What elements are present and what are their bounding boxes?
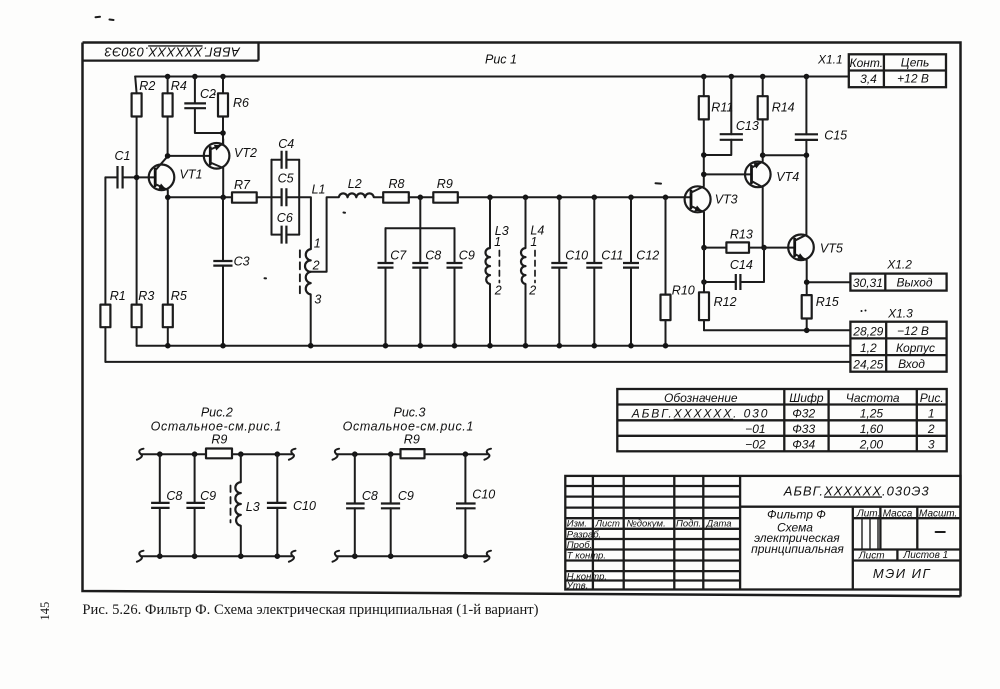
svg-text:R4: R4 bbox=[171, 79, 187, 93]
capacitor block brackets (C4/C5/C6) bbox=[272, 160, 300, 235]
svg-text:Ф33: Ф33 bbox=[792, 422, 815, 436]
svg-text:АБВГ.ХХХХХХ. 030: АБВГ.ХХХХХХ. 030 bbox=[631, 407, 770, 421]
resistor R12 bbox=[699, 248, 737, 331]
svg-text:C11: C11 bbox=[601, 249, 623, 263]
svg-text:X1.2: X1.2 bbox=[886, 258, 912, 272]
wire Вход input line bbox=[105, 361, 850, 363]
svg-text:R1: R1 bbox=[110, 289, 126, 303]
fig2 bottom rail bbox=[141, 553, 293, 559]
fig2 inductor L3 bbox=[231, 454, 260, 556]
svg-text:№докум.: №докум. bbox=[627, 518, 666, 529]
svg-text:Вход: Вход bbox=[898, 357, 925, 371]
svg-text:C8: C8 bbox=[362, 489, 378, 503]
svg-text:Рис.: Рис. bbox=[920, 391, 944, 405]
junction dots on main line bbox=[418, 195, 669, 201]
wire output (Выход) bbox=[804, 279, 851, 285]
svg-text:R6: R6 bbox=[233, 96, 249, 110]
svg-text:C15: C15 bbox=[824, 129, 847, 143]
svg-text:Конт.: Конт. bbox=[850, 56, 884, 70]
connector X1.2 table bbox=[850, 274, 946, 291]
svg-text:L3: L3 bbox=[246, 500, 260, 514]
caption Рис. 5.26 bbox=[82, 602, 538, 618]
resistor R15 bbox=[802, 282, 839, 330]
svg-text:VT2: VT2 bbox=[234, 146, 257, 160]
svg-text:Утв.: Утв. bbox=[566, 580, 589, 591]
capacitor C1 bbox=[105, 149, 136, 188]
svg-text:C2: C2 bbox=[200, 87, 216, 101]
svg-text:Изм.: Изм. bbox=[567, 519, 587, 530]
svg-text:28,29: 28,29 bbox=[852, 324, 883, 338]
capacitor C3 bbox=[213, 197, 249, 345]
svg-text:МЭИ ИГ: МЭИ ИГ bbox=[873, 566, 931, 581]
inductor L2 bbox=[339, 177, 383, 197]
connector X1.1 label bbox=[817, 53, 843, 67]
svg-text:C6: C6 bbox=[277, 211, 293, 225]
svg-text:1: 1 bbox=[314, 237, 321, 251]
svg-text:C7: C7 bbox=[390, 249, 407, 263]
capacitor C10 bbox=[551, 197, 588, 345]
junction dots on ground bus bbox=[165, 343, 668, 349]
svg-text:Обозначение: Обозначение bbox=[664, 391, 738, 405]
fig2 capacitor C10 bbox=[267, 454, 316, 556]
svg-text:Лист: Лист bbox=[595, 519, 621, 530]
svg-text:Рис 1: Рис 1 bbox=[485, 53, 517, 67]
title block texts bbox=[566, 483, 958, 591]
resistor R6 bbox=[218, 77, 249, 146]
svg-text:R9: R9 bbox=[404, 433, 420, 447]
variants table (Обозначение/Шифр/Частота/Рис.) bbox=[617, 389, 946, 452]
fig3 resistor R9 bbox=[401, 433, 425, 459]
svg-text:L2: L2 bbox=[348, 177, 362, 191]
capacitor C15 bbox=[763, 77, 847, 235]
svg-text:АБВГ.ХХХХХХ.030Э3: АБВГ.ХХХХХХ.030Э3 bbox=[783, 483, 930, 498]
svg-text:R14: R14 bbox=[772, 101, 795, 115]
svg-text:C13: C13 bbox=[736, 119, 759, 133]
wire -12V line bbox=[704, 328, 850, 334]
wire block to L1 top bbox=[299, 197, 311, 249]
svg-text:R9: R9 bbox=[437, 177, 453, 191]
svg-text:Корпус: Корпус bbox=[896, 341, 935, 355]
capacitor C7 bbox=[378, 228, 408, 345]
svg-text:3: 3 bbox=[314, 292, 321, 306]
svg-text:VT3: VT3 bbox=[715, 192, 738, 206]
inductor L1 (tapped, 1-2-3) bbox=[300, 183, 339, 346]
resistor R7 bbox=[232, 178, 272, 203]
resistor R10 bbox=[661, 197, 695, 345]
figure Рис.3 heading bbox=[343, 406, 474, 434]
capacitor C9 bbox=[447, 228, 475, 345]
capacitor C2 bbox=[184, 77, 223, 134]
svg-text:Лист: Лист bbox=[858, 551, 885, 562]
sheet frame bbox=[83, 43, 961, 597]
svg-text:R13: R13 bbox=[730, 228, 753, 242]
svg-text:2: 2 bbox=[312, 259, 320, 273]
resistor R4 bbox=[163, 77, 187, 156]
svg-text:Рис. 5.26. Фильтр Ф. Схема эле: Рис. 5.26. Фильтр Ф. Схема электрическая… bbox=[82, 602, 538, 618]
svg-text:2: 2 bbox=[494, 284, 502, 298]
wire VT1 collector to VT2 base bbox=[165, 153, 211, 159]
svg-text:Масса: Масса bbox=[883, 508, 913, 519]
capacitor C14 bbox=[701, 248, 764, 290]
capacitor C12 bbox=[623, 197, 659, 345]
svg-text:Проб.: Проб. bbox=[567, 540, 592, 551]
svg-text:Ф32: Ф32 bbox=[792, 407, 815, 421]
wire VT3 collector to VT4 base bbox=[701, 172, 752, 178]
transistor VT2 bbox=[204, 139, 257, 197]
svg-text:C1: C1 bbox=[115, 149, 131, 163]
svg-text:R15: R15 bbox=[816, 295, 839, 309]
resistor R1 (input leg) bbox=[100, 177, 125, 362]
svg-text:АБВГ.ХХХХХХ.030Э3: АБВГ.ХХХХХХ.030Э3 bbox=[104, 45, 241, 60]
svg-text:Масшт.: Масшт. bbox=[919, 508, 957, 519]
figure Рис.2 heading bbox=[151, 406, 282, 434]
svg-text:Подп.: Подп. bbox=[676, 518, 701, 529]
svg-text:Листов 1: Листов 1 bbox=[902, 550, 948, 561]
svg-text:C10: C10 bbox=[565, 249, 588, 263]
connector X1.3 table bbox=[850, 322, 946, 372]
svg-text:1: 1 bbox=[530, 235, 537, 249]
capacitor C13 bbox=[701, 77, 759, 158]
svg-text:R7: R7 bbox=[234, 178, 251, 192]
svg-text:C8: C8 bbox=[425, 249, 441, 263]
fig2 capacitor C9 bbox=[186, 454, 216, 556]
svg-text:1,60: 1,60 bbox=[860, 422, 884, 436]
fig2 resistor R9 bbox=[206, 432, 232, 458]
svg-text:VT4: VT4 bbox=[776, 170, 799, 184]
svg-text:C3: C3 bbox=[234, 254, 250, 268]
svg-text:145: 145 bbox=[38, 602, 52, 621]
fig2 top rail bbox=[141, 451, 293, 457]
svg-text:C8: C8 bbox=[166, 489, 182, 503]
svg-text:Выход: Выход bbox=[896, 276, 932, 290]
svg-text:−12 В: −12 В bbox=[897, 324, 929, 338]
connector X1.1 table bbox=[849, 54, 946, 87]
wire emitter line (VT1/VT2 emitters to R7) bbox=[165, 195, 232, 201]
svg-text:C9: C9 bbox=[200, 489, 216, 503]
svg-text:C9: C9 bbox=[459, 249, 475, 263]
svg-text:−02: −02 bbox=[745, 438, 766, 452]
svg-text:принципиальная: принципиальная bbox=[751, 542, 844, 556]
inductor L4 bbox=[521, 197, 544, 345]
svg-text:VT5: VT5 bbox=[820, 242, 843, 256]
svg-text:1,25: 1,25 bbox=[860, 407, 884, 421]
top-left designation stamp (rotated 180) bbox=[83, 43, 259, 61]
fig2 capacitor C8 bbox=[151, 454, 182, 556]
svg-text:−01: −01 bbox=[745, 422, 765, 436]
fig3 capacitor C9 bbox=[381, 454, 414, 556]
paper specks top-left bbox=[96, 17, 662, 279]
wire VT4 emitter to VT5 base bbox=[764, 247, 795, 249]
fig3 capacitor C8 bbox=[346, 454, 378, 556]
fig3 top rail bbox=[336, 451, 488, 457]
svg-text:Шифр: Шифр bbox=[789, 391, 824, 405]
svg-text:3,4: 3,4 bbox=[860, 72, 877, 86]
capacitor C8 bbox=[412, 228, 441, 345]
svg-text:R5: R5 bbox=[171, 289, 187, 303]
svg-text:C9: C9 bbox=[398, 489, 414, 503]
fig3 capacitor C10 bbox=[456, 454, 495, 556]
inductor L3 bbox=[486, 197, 509, 345]
fig3 bottom rail bbox=[336, 553, 488, 559]
svg-text:Т контр.: Т контр. bbox=[567, 550, 606, 561]
svg-text:2,00: 2,00 bbox=[859, 438, 884, 452]
transistor VT1 bbox=[149, 156, 203, 197]
svg-text:VT1: VT1 bbox=[180, 168, 203, 182]
svg-text:R2: R2 bbox=[139, 79, 155, 93]
svg-text:2: 2 bbox=[927, 422, 935, 436]
svg-text:Ф34: Ф34 bbox=[792, 438, 815, 452]
fig2 rail break marks bbox=[137, 449, 296, 562]
title block grid bbox=[565, 476, 960, 590]
resistor R14 bbox=[758, 77, 795, 159]
svg-text:Рис.3: Рис.3 bbox=[394, 406, 426, 420]
capacitor C4 bbox=[272, 137, 300, 169]
svg-text:1,2: 1,2 bbox=[860, 341, 877, 355]
svg-text:3: 3 bbox=[928, 438, 935, 452]
svg-text:R8: R8 bbox=[389, 177, 405, 191]
svg-text:1: 1 bbox=[494, 235, 501, 249]
transistor VT3 bbox=[685, 174, 738, 247]
svg-text:Цепь: Цепь bbox=[901, 56, 930, 70]
svg-text:Частота: Частота bbox=[846, 391, 900, 405]
wire Корпус ground bus bbox=[137, 345, 851, 347]
svg-text:C12: C12 bbox=[636, 249, 659, 263]
transistor VT5 bbox=[788, 235, 843, 283]
svg-text:C14: C14 bbox=[730, 258, 753, 272]
svg-text:30,31: 30,31 bbox=[853, 276, 883, 290]
svg-text:24,25: 24,25 bbox=[852, 357, 883, 371]
svg-text:L1: L1 bbox=[312, 183, 326, 197]
resistor R13 bbox=[701, 228, 767, 253]
svg-text:Фильтр Ф: Фильтр Ф bbox=[767, 508, 826, 522]
svg-text:2: 2 bbox=[528, 284, 536, 298]
wire +12V top rail bbox=[135, 76, 849, 78]
svg-text:Остальное-см.рис.1: Остальное-см.рис.1 bbox=[343, 420, 474, 434]
connector X1.2 label bbox=[886, 258, 912, 272]
svg-text:R9: R9 bbox=[211, 432, 227, 446]
capacitor C6 bbox=[272, 211, 300, 244]
resistor R2 bbox=[132, 77, 156, 178]
wire VT1 base bbox=[134, 175, 155, 181]
resistor R5 bbox=[163, 197, 187, 345]
resistor R8 bbox=[383, 177, 433, 203]
resistor R11 bbox=[699, 77, 734, 175]
resistor R9 bbox=[433, 177, 691, 203]
transistor VT4 bbox=[745, 119, 799, 247]
svg-text:1: 1 bbox=[928, 407, 935, 421]
svg-text:C10: C10 bbox=[293, 499, 316, 513]
svg-text:R10: R10 bbox=[672, 283, 695, 297]
fig3 rail break marks bbox=[333, 449, 492, 562]
svg-text:C10: C10 bbox=[472, 488, 495, 502]
resistor R3 bbox=[132, 177, 155, 345]
svg-text:R12: R12 bbox=[714, 295, 737, 309]
svg-text:Лит.: Лит. bbox=[856, 508, 880, 519]
svg-text:Дата: Дата bbox=[706, 518, 732, 529]
connector X1.3 label bbox=[861, 307, 914, 321]
svg-text:X1.3: X1.3 bbox=[887, 307, 913, 321]
figure label Рис 1 bbox=[485, 53, 517, 67]
svg-text:+12 В: +12 В bbox=[897, 72, 929, 86]
svg-text:C5: C5 bbox=[278, 172, 294, 186]
svg-text:C4: C4 bbox=[278, 137, 294, 151]
svg-text:X1.1: X1.1 bbox=[817, 53, 843, 67]
page number 145 bbox=[38, 602, 52, 621]
capacitor C5 bbox=[272, 172, 300, 207]
svg-text:Рис.2: Рис.2 bbox=[201, 406, 233, 420]
junction dots on +12V rail bbox=[165, 74, 809, 80]
capacitor C11 bbox=[586, 197, 623, 345]
svg-text:R3: R3 bbox=[138, 289, 154, 303]
svg-text:R11: R11 bbox=[711, 101, 733, 115]
svg-text:Разраб.: Разраб. bbox=[567, 529, 601, 540]
wire C7-C8-C9 header bbox=[386, 197, 455, 228]
